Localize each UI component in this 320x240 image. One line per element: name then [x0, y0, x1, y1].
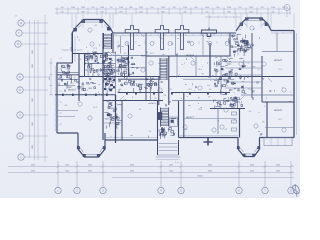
svg-text:750: 750	[60, 11, 63, 13]
dark bathroom patch x103-116	[104, 78, 115, 92]
wall horizontal y123 left	[103, 122, 122, 124]
svg-text:2.4: 2.4	[149, 131, 152, 133]
svg-text:1.8: 1.8	[109, 63, 112, 65]
bottom pier stub	[207, 138, 209, 146]
svg-text:кв.№ 2: кв.№ 2	[68, 89, 76, 92]
svg-text:1900: 1900	[65, 164, 69, 166]
building left exterior wall lower	[56, 63, 58, 133]
corridor y76.5 extend left	[79, 76, 83, 78]
svg-text:8.2: 8.2	[225, 129, 228, 131]
staircase 2 center	[159, 58, 161, 80]
svg-text:880: 880	[81, 11, 84, 13]
svg-text:3.1: 3.1	[87, 71, 90, 73]
svg-text:6.8: 6.8	[65, 105, 68, 107]
top wall right section	[271, 30, 294, 32]
right top grid bubble	[284, 5, 290, 11]
building left exterior wall upper	[71, 33, 73, 63]
top dim third segment	[205, 16, 240, 18]
top band vertical leaders	[72, 14, 294, 29]
wall vertical x230	[229, 33, 231, 56]
svg-text:760: 760	[183, 11, 186, 13]
top room circles row	[125, 42, 229, 46]
svg-text:2600: 2600	[88, 164, 92, 166]
svg-text:кв.№ 7: кв.№ 7	[186, 116, 194, 119]
svg-text:7: 7	[264, 190, 266, 193]
wall vertical x128	[128, 45, 130, 77]
porch outside steps	[156, 156, 181, 158]
bottom-left bay window	[78, 133, 105, 157]
svg-text:3000: 3000	[32, 50, 34, 54]
svg-text:1500: 1500	[205, 7, 209, 9]
svg-text:2600: 2600	[88, 170, 92, 172]
fixture cluster left block upper	[84, 52, 114, 77]
svg-text:1200: 1200	[183, 7, 187, 9]
wall x150 kitchen	[150, 77, 152, 101]
svg-text:780: 780	[119, 11, 122, 13]
svg-text:17.3: 17.3	[93, 48, 97, 50]
svg-text:Д: Д	[20, 22, 22, 25]
top exterior wall with windows	[113, 32, 236, 34]
wall vertical x262	[261, 56, 263, 102]
interior speckle texture	[65, 36, 292, 138]
svg-text:8.9: 8.9	[245, 51, 248, 53]
bottom dimension line 1	[8, 166, 294, 168]
wall vertical x79	[78, 54, 80, 102]
svg-text:2100: 2100	[119, 7, 123, 9]
svg-text:2600: 2600	[250, 170, 254, 172]
wall vertical x103 long	[102, 33, 104, 140]
svg-text:760: 760	[238, 7, 241, 9]
wall vertical x122 lower	[121, 101, 123, 141]
svg-text:950: 950	[100, 11, 103, 13]
right strip partition walls	[225, 61, 262, 63]
entrance porch with steps	[157, 140, 159, 155]
wall vertical x184 lower	[183, 92, 185, 138]
bottom grid leaders	[57, 161, 293, 187]
wall horizontal y127 right	[265, 127, 294, 129]
top dimension ticks	[57, 7, 290, 15]
svg-text:1900: 1900	[65, 170, 69, 172]
svg-text:3000: 3000	[32, 122, 34, 126]
svg-text:2.6: 2.6	[79, 59, 82, 61]
staircase 1 top-left	[103, 33, 105, 49]
partition x175	[175, 33, 177, 56]
svg-text:кв.№ 6: кв.№ 6	[274, 109, 282, 112]
left grid bubbles with leaders	[24, 22, 48, 24]
svg-text:кв.№ 1: кв.№ 1	[141, 55, 149, 58]
svg-text:15.2: 15.2	[93, 107, 97, 109]
wall vertical x210	[209, 43, 211, 77]
svg-text:520: 520	[260, 7, 263, 9]
door swing lines	[98, 33, 272, 100]
svg-text:2000: 2000	[169, 164, 173, 166]
svg-text:5800: 5800	[208, 170, 212, 172]
svg-text:520: 520	[205, 11, 208, 13]
corridor wall second line y79	[118, 78, 159, 80]
svg-text:4.1: 4.1	[139, 89, 142, 91]
fixture cluster right-center lower	[213, 97, 242, 109]
svg-text:11.3: 11.3	[248, 89, 251, 91]
fixture cluster lower-left rooms	[104, 101, 122, 129]
shaft beside stair3	[170, 117, 178, 127]
left room partitions	[57, 71, 79, 73]
top-left bay window	[72, 20, 113, 34]
fixture cluster right strip main	[214, 59, 249, 95]
svg-text:900: 900	[216, 7, 219, 9]
left room partition dark y74.8	[57, 74, 79, 76]
svg-text:А: А	[19, 114, 21, 117]
building right exterior wall	[293, 31, 295, 138]
svg-text:4.4: 4.4	[239, 29, 242, 31]
svg-text:12.2: 12.2	[278, 119, 282, 121]
small interior tick rows	[59, 41, 226, 124]
svg-text:510: 510	[60, 7, 63, 9]
elevator shaft block	[158, 113, 162, 120]
fixture cluster top right bay rooms	[238, 38, 249, 53]
wall vertical x277	[276, 33, 278, 51]
bottom grid bubbles	[55, 187, 61, 193]
svg-text:2000: 2000	[169, 170, 173, 172]
svg-text:880: 880	[129, 7, 132, 9]
partition x203	[202, 33, 204, 56]
wall horizontal y56 center	[146, 55, 230, 57]
wall horizontal y92.5 long dark	[118, 92, 163, 94]
svg-text:2: 2	[76, 190, 78, 193]
svg-text:7.4: 7.4	[139, 109, 142, 111]
svg-text:5800: 5800	[130, 170, 134, 172]
stair2 left wall lower	[158, 77, 160, 106]
svg-text:6: 6	[238, 190, 240, 193]
right balcony	[264, 138, 292, 146]
wall horizontal y110 left stub	[57, 110, 78, 112]
svg-text:3000: 3000	[32, 64, 34, 68]
bay1 side walls	[71, 33, 73, 52]
top cross piers	[125, 26, 189, 50]
svg-text:Г: Г	[18, 32, 20, 35]
bottom wall right section	[260, 137, 295, 139]
bottom-right bay window	[238, 138, 260, 157]
left block partition verticals	[87, 52, 89, 65]
bottom dimension line 3	[112, 177, 294, 179]
svg-text:6.3: 6.3	[119, 89, 122, 91]
svg-text:5.4: 5.4	[127, 69, 130, 71]
svg-text:14.7: 14.7	[188, 89, 192, 91]
svg-text:4: 4	[160, 190, 162, 193]
bottom wall center section	[179, 137, 239, 139]
top dimension line row 1	[55, 8, 291, 10]
fixture cluster near porch	[159, 127, 175, 139]
bottom wall left section	[105, 139, 158, 141]
svg-text:12.1: 12.1	[150, 53, 154, 55]
svg-text:1380: 1380	[100, 7, 104, 9]
svg-text:8: 8	[290, 190, 292, 193]
svg-text:640: 640	[139, 11, 142, 13]
left outer dim line x51	[50, 58, 52, 96]
svg-text:3000: 3000	[31, 170, 35, 172]
svg-text:1: 1	[20, 156, 22, 159]
wall vertical x221	[220, 56, 222, 95]
svg-text:5.1: 5.1	[164, 95, 167, 97]
svg-text:3000: 3000	[31, 164, 35, 166]
bay2 pillar blocks	[240, 23, 243, 26]
partition x120	[120, 36, 122, 54]
svg-text:2600: 2600	[276, 164, 280, 166]
svg-text:6.1: 6.1	[95, 25, 98, 27]
svg-text:1180: 1180	[271, 7, 275, 9]
svg-text:3000: 3000	[32, 145, 34, 149]
svg-text:1420: 1420	[139, 7, 143, 9]
svg-text:9.6: 9.6	[249, 111, 252, 113]
svg-text:36000: 36000	[197, 175, 202, 177]
wall vertical x84.5	[84, 54, 86, 78]
svg-text:А: А	[19, 135, 21, 138]
left vertical dimension lines	[29, 20, 31, 158]
svg-text:2800: 2800	[49, 76, 51, 80]
top dimension line row 2	[55, 12, 291, 14]
svg-text:17.6: 17.6	[278, 69, 282, 71]
wall vertical x115 upper	[115, 52, 117, 96]
wall horizontal y94.7 left	[55, 94, 116, 96]
wall horizontal y67	[103, 67, 146, 69]
wall horizontal y118 center	[184, 118, 237, 120]
svg-text:5800: 5800	[130, 164, 134, 166]
svg-text:900: 900	[161, 11, 164, 13]
fixture cluster center dark core	[117, 57, 136, 80]
svg-text:кв.№ 5: кв.№ 5	[274, 59, 282, 62]
svg-text:кв.№ 4: кв.№ 4	[186, 54, 194, 57]
svg-text:750: 750	[109, 7, 112, 9]
fixture cluster mid-left lower	[119, 78, 157, 93]
svg-text:Б: Б	[19, 89, 21, 92]
radiator boxes left of x239	[232, 112, 237, 115]
staircase 3 lower center	[160, 108, 162, 127]
stair3 side walls	[157, 101, 159, 141]
svg-text:5800: 5800	[208, 164, 212, 166]
left step wall y63	[57, 62, 73, 64]
corridor wall y76.5 long	[83, 76, 160, 78]
svg-text:9.2: 9.2	[124, 53, 127, 55]
svg-text:2560: 2560	[161, 7, 165, 9]
wall horizontal y70 core	[85, 69, 116, 71]
top-right bay window	[236, 18, 271, 31]
top T pier	[202, 30, 217, 37]
room number circles	[78, 26, 286, 132]
svg-text:2100: 2100	[227, 7, 231, 9]
svg-text:900: 900	[227, 11, 230, 13]
svg-text:3.3: 3.3	[185, 129, 188, 131]
svg-text:3.7: 3.7	[253, 29, 256, 31]
bay4 pillar blocks	[237, 147, 239, 149]
fixture cluster kitchens y80-95 left	[58, 65, 76, 89]
bay3 pillar blocks	[77, 147, 79, 149]
svg-text:2560: 2560	[81, 7, 85, 9]
svg-text:1.6: 1.6	[159, 69, 162, 71]
svg-text:1200: 1200	[249, 11, 253, 13]
svg-text:2600: 2600	[250, 164, 254, 166]
wall pier dots along y92	[126, 92, 227, 95]
svg-text:950: 950	[150, 7, 153, 9]
svg-text:2600: 2600	[276, 170, 280, 172]
svg-text:780: 780	[172, 7, 175, 9]
wall vertical x267 lower	[266, 102, 268, 138]
svg-text:640: 640	[194, 7, 197, 9]
fixture cluster left block dense core	[103, 52, 116, 94]
svg-text:Б: Б	[19, 76, 21, 79]
svg-text:15: 15	[15, 16, 18, 18]
wall horizontal y116 left stub	[57, 116, 75, 118]
svg-text:3: 3	[102, 190, 104, 193]
fixture cluster right strip upper	[229, 34, 251, 57]
wall horizontal y53.5 left	[72, 53, 103, 55]
wall vertical x218 lower	[217, 109, 219, 135]
bottom dimension line 2	[8, 172, 294, 174]
svg-text:1 эт.: 1 эт.	[175, 162, 179, 164]
wall horizontal y55 center-left	[103, 55, 146, 57]
wall vertical x252	[251, 33, 253, 98]
kv2 wall tick column	[56, 100, 60, 130]
wall vertical x239 lower	[239, 109, 241, 138]
svg-text:920: 920	[271, 11, 274, 13]
fixture cluster left lower band	[64, 82, 96, 91]
pier dots along y94.7	[62, 94, 108, 96]
bottom-left wall	[57, 132, 78, 134]
svg-text:16.4: 16.4	[198, 69, 202, 71]
wall vertical x146	[145, 33, 147, 101]
svg-text:кв.№ 8: кв.№ 8	[149, 102, 157, 105]
svg-text:13.8: 13.8	[198, 109, 202, 111]
wall horizontal y102 right	[262, 101, 294, 103]
svg-text:920: 920	[91, 7, 94, 9]
partition x121 core	[121, 56, 123, 77]
wall horizontal y100.5	[103, 100, 163, 102]
right top wall window ticks	[276, 31, 290, 34]
svg-text:1: 1	[57, 190, 59, 193]
svg-text:5: 5	[180, 190, 182, 193]
wall horizontal y63.5 core	[85, 63, 116, 65]
wall vertical x196	[195, 56, 197, 77]
wall horizontal y108 center-right	[210, 108, 245, 110]
wall vertical x115 lower heavy	[115, 95, 117, 143]
svg-text:1300: 1300	[249, 7, 253, 9]
svg-text:1200: 1200	[71, 7, 75, 9]
svg-text:В: В	[17, 43, 19, 46]
stair2 right heavy wall	[168, 56, 170, 105]
bay1 pillar blocks	[74, 28, 77, 31]
right section wall y51	[262, 51, 294, 53]
svg-text:3000: 3000	[32, 98, 34, 102]
svg-text:10.2: 10.2	[70, 83, 74, 85]
svg-text:2.2: 2.2	[209, 89, 212, 91]
bottom-right corner smudge	[293, 185, 300, 194]
